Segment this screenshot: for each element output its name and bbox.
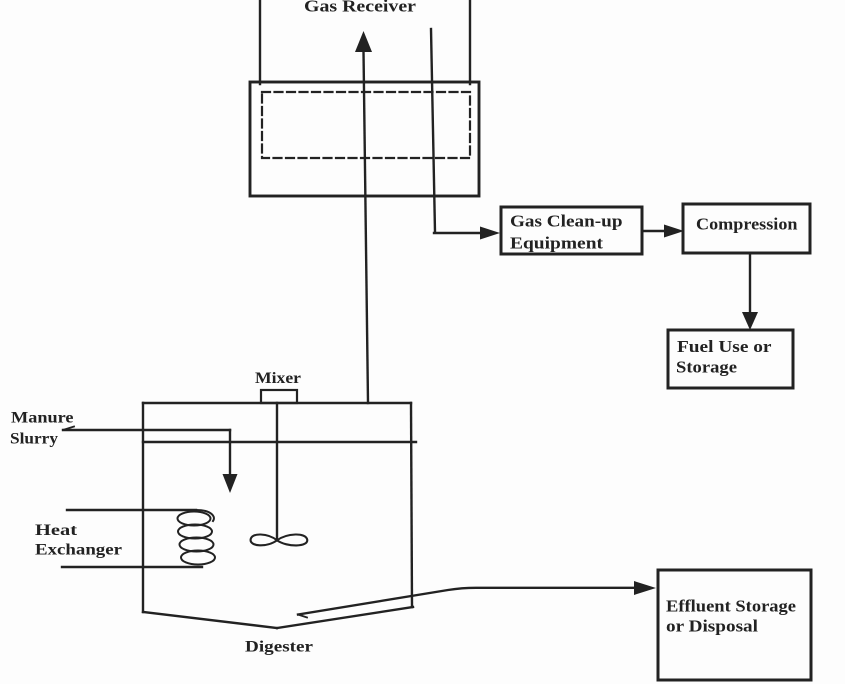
- gas off-take line vertical: [431, 29, 435, 232]
- effluent pipe barb: [298, 615, 307, 618]
- biogas riser pipe (digester to receiver): [364, 51, 369, 403]
- effluent storage or disposal box: [658, 570, 811, 680]
- arrowhead into effluent box (right): [634, 581, 656, 595]
- arrowhead biogas riser (up): [355, 31, 372, 52]
- svg-text:Gas Clean-up: Gas Clean-up: [510, 212, 623, 231]
- svg-text:Manure: Manure: [11, 410, 74, 427]
- heat exchanger top pipe: [67, 509, 196, 511]
- arrowhead into fuel box (down): [742, 312, 758, 330]
- mixer shaft: [276, 403, 278, 540]
- svg-text:Exchanger: Exchanger: [35, 542, 122, 559]
- svg-text:Gas Receiver: Gas Receiver: [304, 0, 417, 16]
- svg-text:Heat: Heat: [35, 522, 78, 539]
- arrowhead into compression (right): [664, 225, 684, 238]
- gas holder floating cover (dashed): [262, 92, 470, 158]
- effluent pipe inner line: [298, 588, 636, 615]
- svg-text:or Disposal: or Disposal: [666, 617, 758, 636]
- digester bottom left slant: [143, 612, 277, 628]
- gas off-take line horizontal to clean-up: [434, 232, 482, 234]
- digester right wall: [411, 403, 412, 607]
- arrowhead manure slurry (down): [223, 474, 238, 493]
- gas receiver container right wall: [469, 0, 471, 84]
- manure slurry inlet barb: [63, 427, 74, 431]
- digester top edge: [143, 402, 411, 404]
- gas clean-up equipment box: [501, 207, 642, 254]
- arrow line clean-up to compression: [642, 230, 667, 232]
- fuel use or storage box: [668, 330, 793, 388]
- heat exchanger coil: [196, 510, 214, 521]
- arrow line compression down to fuel box: [749, 253, 751, 314]
- svg-text:Slurry: Slurry: [10, 431, 58, 448]
- digester left wall: [142, 403, 144, 612]
- gas receiver container left wall: [259, 0, 261, 84]
- gas holder tank outline: [250, 82, 479, 196]
- svg-text:Mixer: Mixer: [255, 370, 301, 387]
- digester bottom right slant: [277, 607, 413, 628]
- svg-text:Effluent Storage: Effluent Storage: [666, 597, 796, 616]
- svg-text:Storage: Storage: [676, 358, 737, 377]
- svg-text:Compression: Compression: [696, 215, 798, 234]
- svg-text:Fuel Use or: Fuel Use or: [677, 337, 772, 356]
- mixer propeller blades: [251, 534, 308, 545]
- svg-text:Equipment: Equipment: [510, 234, 603, 253]
- arrowhead into gas clean-up (right): [480, 227, 500, 240]
- mixer box: [261, 390, 297, 403]
- compression box: [683, 204, 810, 253]
- digester liquid level line: [143, 441, 416, 443]
- heat exchanger bottom pipe: [62, 566, 202, 568]
- manure slurry inlet vertical line: [229, 430, 231, 476]
- svg-text:Digester: Digester: [245, 639, 313, 656]
- manure slurry inlet horizontal line: [63, 429, 230, 431]
